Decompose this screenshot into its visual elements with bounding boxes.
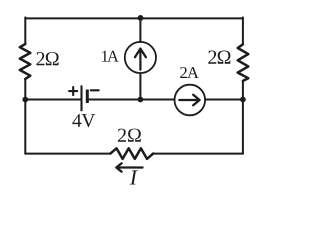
- label 2ohm right: [208, 51, 230, 64]
- wire bottom right: [153, 153, 243, 155]
- wire right upper lead: [242, 17, 244, 44]
- current source I2 2A circle: [175, 85, 206, 116]
- plus sign: [69, 87, 77, 95]
- battery V1 long plate: [80, 85, 82, 111]
- label 2ohm left: [36, 52, 58, 65]
- current arrow I bottom: [116, 166, 142, 168]
- label 2A: [180, 67, 199, 78]
- wire 1A lower: [139, 73, 141, 99]
- label I: [130, 170, 138, 184]
- resistor R1 2ohm left: [20, 44, 31, 79]
- arrow up inside I1: [139, 49, 141, 70]
- label 4V: [72, 114, 95, 127]
- wire right lower lead: [242, 81, 244, 154]
- junction node left-middle: [22, 97, 28, 103]
- wire left upper lead: [24, 17, 26, 44]
- wire middle right: [205, 99, 243, 101]
- resistor R2 2ohm right: [238, 44, 249, 81]
- wire middle left: [25, 99, 80, 101]
- minus sign: [91, 89, 99, 91]
- junction node top: [138, 15, 144, 21]
- wire left lower lead: [24, 79, 26, 154]
- wire 1A upper: [139, 18, 141, 42]
- junction node right-middle: [240, 97, 246, 103]
- arrow right inside I2: [179, 99, 197, 101]
- battery V1 short plate: [86, 90, 89, 104]
- wire middle center: [89, 99, 175, 101]
- label 2ohm bottom: [118, 129, 141, 142]
- label 1A: [102, 51, 119, 62]
- current source I1 1A circle: [125, 42, 156, 73]
- junction node middle: [138, 97, 144, 103]
- wire top: [25, 17, 243, 19]
- wire bottom left: [25, 153, 110, 155]
- resistor R3 2ohm bottom: [110, 148, 153, 159]
